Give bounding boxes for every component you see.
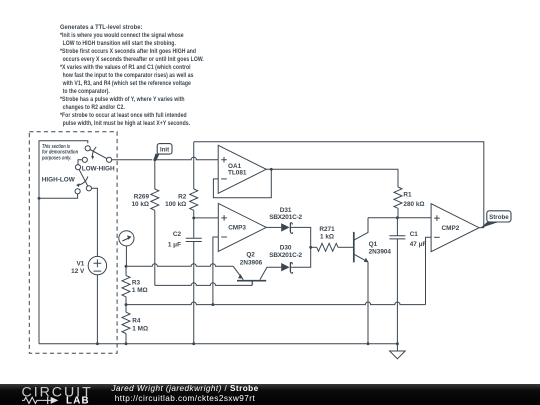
svg-text:Q1: Q1 xyxy=(369,241,378,248)
svg-text:1 kΩ: 1 kΩ xyxy=(320,233,334,240)
svg-text:12 V: 12 V xyxy=(71,268,85,275)
svg-text:SBX201C-2: SBX201C-2 xyxy=(269,214,302,221)
svg-text:R1: R1 xyxy=(403,191,412,198)
svg-text:C2: C2 xyxy=(173,231,182,238)
svg-text:2N3904: 2N3904 xyxy=(369,249,392,256)
svg-text:LAB: LAB xyxy=(66,395,90,405)
svg-text:R269: R269 xyxy=(134,193,150,200)
svg-text:purposes only.: purposes only. xyxy=(41,156,72,162)
svg-text:LOW-HIGH: LOW-HIGH xyxy=(82,166,115,173)
svg-text:TL081: TL081 xyxy=(228,170,247,177)
svg-text:R4: R4 xyxy=(132,317,141,324)
svg-text:R3: R3 xyxy=(132,280,141,287)
svg-text:CMP3: CMP3 xyxy=(228,225,246,232)
svg-text:HIGH-LOW: HIGH-LOW xyxy=(42,177,76,184)
svg-text:SBX201C-2: SBX201C-2 xyxy=(269,252,302,259)
svg-text:1 MΩ: 1 MΩ xyxy=(132,326,148,333)
svg-text:V1: V1 xyxy=(76,260,84,267)
svg-text:100 kΩ: 100 kΩ xyxy=(165,201,186,208)
svg-text:R271: R271 xyxy=(319,226,335,233)
svg-text:Q2: Q2 xyxy=(246,252,255,259)
svg-text:R2: R2 xyxy=(178,193,187,200)
svg-text:C1: C1 xyxy=(410,231,419,238)
svg-text:D31: D31 xyxy=(280,207,292,214)
svg-text:280 kΩ: 280 kΩ xyxy=(403,201,424,208)
svg-text:Init: Init xyxy=(160,146,169,153)
svg-text:1 μF: 1 μF xyxy=(168,241,181,248)
svg-text:Strobe: Strobe xyxy=(489,214,509,221)
svg-text:CMP2: CMP2 xyxy=(442,225,460,232)
svg-text:2N3906: 2N3906 xyxy=(240,260,263,267)
svg-text:1 MΩ: 1 MΩ xyxy=(132,287,148,294)
svg-text:D30: D30 xyxy=(280,244,292,251)
svg-text:47 μF: 47 μF xyxy=(410,241,427,248)
svg-text:10 kΩ: 10 kΩ xyxy=(131,201,149,208)
